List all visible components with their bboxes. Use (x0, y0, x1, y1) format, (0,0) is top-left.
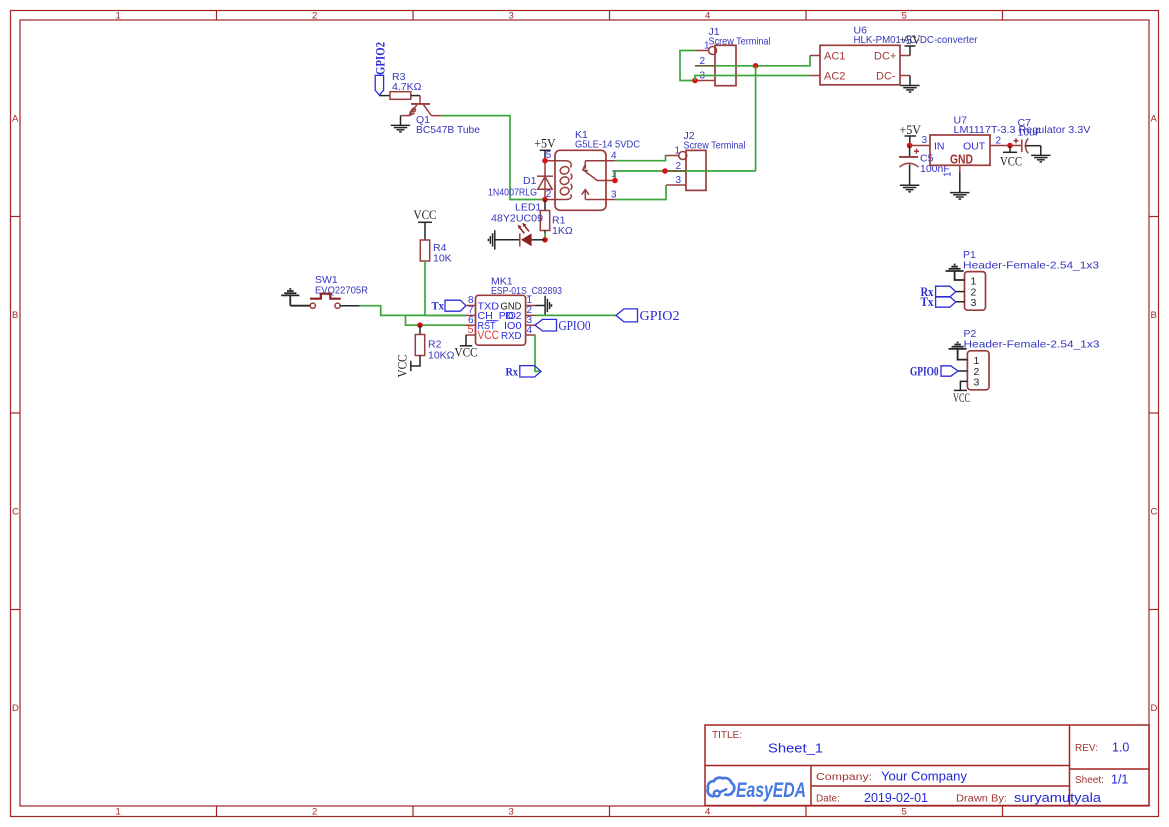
svg-text:B: B (12, 310, 18, 321)
svg-text:4: 4 (705, 11, 710, 22)
svg-text:GND: GND (950, 153, 973, 167)
svg-text:5: 5 (468, 324, 474, 336)
svg-text:B: B (1151, 310, 1157, 321)
wire GPIO2 flag to R3 (379, 95, 390, 97)
junction dot (J1 pin3) (692, 78, 698, 84)
svg-text:Drawn By:: Drawn By: (956, 794, 1007, 805)
svg-text:3: 3 (974, 377, 980, 389)
svg-text:C: C (1151, 507, 1158, 518)
header P2 (958, 328, 1100, 390)
net flag GPIO0 (P2) (910, 364, 958, 379)
svg-text:LM1117T-3.3 Regulator 3.3V: LM1117T-3.3 Regulator 3.3V (954, 124, 1091, 136)
ground (U7) (950, 193, 969, 200)
resistor R2 (415, 335, 454, 362)
svg-text:Date:: Date: (816, 794, 840, 805)
wire SW1 to RST (staircase) (360, 306, 466, 316)
net flag Tx (ESP pin8) (432, 299, 467, 313)
junction dot (coil2/D1/R1) (542, 197, 548, 203)
svg-text:1.0: 1.0 (1112, 741, 1129, 755)
net flag GPIO2 (right) (616, 308, 680, 323)
svg-text:10KΩ: 10KΩ (428, 350, 455, 362)
wire R1 to LED (544, 231, 546, 234)
ground (ESP GND) (545, 296, 551, 315)
wire R3 to Q1 base (411, 95, 420, 97)
svg-text:VCC: VCC (953, 390, 970, 405)
net flag Tx (P1) (921, 294, 956, 309)
svg-text:VCC: VCC (478, 328, 500, 342)
svg-text:TITLE:: TITLE: (712, 730, 742, 741)
svg-text:+5V: +5V (900, 122, 922, 137)
net flag GPIO0 (ESP pin3) (535, 318, 591, 333)
wire ESP IO2 to GPIO2 flag (536, 314, 617, 316)
ground (P1 pin1) (946, 265, 965, 281)
relay K1 (545, 129, 640, 210)
VCC (R2 bottom) (395, 355, 421, 378)
wire ESP GND to ground (536, 305, 546, 307)
AC-DC converter U6 (810, 25, 978, 85)
wire relay pin4 to J2 pin1 (615, 156, 666, 161)
svg-text:VCC: VCC (414, 207, 437, 222)
svg-text:Sheet:: Sheet: (1075, 775, 1104, 786)
svg-text:D: D (12, 703, 19, 714)
svg-text:C: C (12, 507, 19, 518)
svg-text:3: 3 (509, 11, 514, 22)
EasyEDA logo (708, 778, 806, 802)
svg-text:Company:: Company: (816, 772, 872, 783)
svg-text:Tx: Tx (921, 294, 934, 309)
junction dot (relay pin1) (612, 178, 618, 184)
VCC (U7 out) (1000, 146, 1022, 169)
junction dot (+5V/D1/coil) (542, 158, 548, 164)
ground (Q1) (391, 125, 410, 131)
wire dot to R2 (419, 325, 421, 334)
screw terminal J1 (695, 26, 771, 86)
header P1 (956, 249, 1099, 310)
svg-text:5: 5 (902, 807, 907, 818)
wire relay pin1 to J2 pin2 net (615, 171, 756, 181)
svg-text:1: 1 (704, 41, 710, 52)
svg-text:Screw Terminal: Screw Terminal (709, 36, 771, 48)
title block (705, 725, 1149, 806)
capacitor C7 (1010, 138, 1041, 155)
svg-text:DC-: DC- (876, 71, 896, 83)
ground (C7) (1031, 155, 1050, 162)
svg-text:2: 2 (312, 11, 317, 22)
svg-text:48Y2UC09: 48Y2UC09 (491, 213, 543, 225)
svg-text:Sheet_1: Sheet_1 (768, 742, 823, 756)
svg-text:3: 3 (971, 297, 977, 309)
svg-text:3: 3 (509, 807, 514, 818)
junction dot (OUT/VCC/C7) (1007, 143, 1013, 149)
svg-text:GPIO2: GPIO2 (640, 308, 680, 323)
svg-text:RXD: RXD (501, 330, 522, 342)
svg-text:A: A (12, 114, 19, 125)
svg-text:AC1: AC1 (824, 51, 845, 63)
svg-text:10K: 10K (433, 253, 452, 265)
ground (SW1) (281, 289, 310, 306)
wire J1 pin3 to U6 AC2 (695, 76, 810, 81)
ground (C5) (900, 185, 919, 192)
svg-text:1: 1 (116, 11, 121, 22)
wire R4 to CH_PD (425, 261, 466, 315)
svg-text:G5LE-14 5VDC: G5LE-14 5VDC (575, 139, 640, 151)
svg-text:1: 1 (675, 146, 681, 157)
svg-text:D: D (1151, 703, 1158, 714)
resistor R1 (540, 211, 573, 238)
svg-text:1N4007RLG: 1N4007RLG (488, 187, 537, 199)
capacitor C5 (899, 146, 950, 186)
net flag Rx (P1) (921, 284, 956, 299)
wire Q1 emitter to ground (400, 116, 402, 126)
+5V (relay) (534, 136, 556, 161)
resistor R4 (420, 240, 451, 265)
svg-text:1: 1 (974, 355, 980, 367)
svg-text:+5V: +5V (899, 32, 921, 47)
svg-text:BC547B Tube: BC547B Tube (416, 124, 480, 136)
svg-text:VCC: VCC (395, 355, 410, 378)
transistor Q1 (401, 104, 481, 136)
VCC (ESP pin5) (455, 335, 478, 360)
svg-text:IN: IN (934, 140, 945, 152)
ground (U6 DC-) (900, 76, 919, 93)
wire U7 GND to ground (959, 172, 961, 193)
wire ESP RXD down to Rx flag (535, 335, 541, 371)
wire J1 pin1 to pin3 (680, 51, 695, 81)
wire coil junction to R1 (544, 200, 546, 211)
svg-text:REV:: REV: (1075, 743, 1098, 754)
wire overlay J2 pin2 stub (666, 170, 686, 172)
svg-text:4.7KΩ: 4.7KΩ (392, 81, 422, 93)
svg-text:D1: D1 (523, 175, 537, 187)
resistor R3 (390, 71, 422, 99)
junction dot (R1/LED) (542, 237, 548, 243)
svg-text:5: 5 (902, 11, 907, 22)
net flag GPIO2 (top left) (373, 42, 388, 95)
svg-text:DC+: DC+ (874, 51, 896, 63)
svg-text:EasyEDA: EasyEDA (736, 779, 806, 802)
wire to U7 IN (910, 145, 930, 147)
svg-text:VCC: VCC (455, 345, 478, 360)
ground (P2 pin1) (949, 342, 968, 359)
junction dot (J1 pin2 riser) (753, 63, 759, 69)
svg-text:4: 4 (705, 807, 710, 818)
diode D1 (488, 161, 553, 200)
svg-text:OUT: OUT (963, 140, 986, 152)
svg-text:GPIO2: GPIO2 (373, 42, 388, 75)
svg-text:AC2: AC2 (824, 71, 845, 83)
wire J1 pin2 to U6 AC1 (695, 56, 810, 66)
svg-text:Rx: Rx (506, 365, 519, 379)
svg-text:1: 1 (116, 807, 121, 818)
svg-text:1KΩ: 1KΩ (552, 225, 573, 237)
svg-text:3: 3 (676, 175, 682, 186)
svg-text:GPIO0: GPIO0 (910, 364, 939, 379)
svg-text:+5V: +5V (534, 136, 556, 151)
svg-text:4: 4 (527, 325, 533, 336)
svg-text:Header-Female-2.54_1x3: Header-Female-2.54_1x3 (963, 260, 1099, 272)
junction dot (J2 pin2) (662, 168, 668, 174)
svg-text:Your Company: Your Company (881, 770, 968, 784)
svg-text:Header-Female-2.54_1x3: Header-Female-2.54_1x3 (964, 339, 1100, 351)
svg-text:Tx: Tx (432, 299, 445, 313)
VCC (R4 top) (414, 207, 437, 240)
LED1 (491, 202, 545, 247)
svg-text:1/1: 1/1 (1111, 773, 1128, 787)
VCC (P2 pin3) (953, 381, 970, 405)
+5V (U7 input) (900, 122, 922, 146)
svg-text:suryamutyala: suryamutyala (1014, 791, 1101, 805)
svg-text:A: A (1151, 114, 1158, 125)
screw terminal J2 (666, 130, 746, 190)
svg-text:2019-02-01: 2019-02-01 (864, 791, 928, 805)
svg-text:VCC: VCC (1000, 154, 1022, 169)
svg-text:2: 2 (312, 807, 317, 818)
switch SW1 (310, 274, 368, 308)
junction dot (+5V/C5/IN) (907, 143, 913, 149)
+5V (U6 DC+) (899, 32, 921, 56)
regulator U7 (922, 115, 1091, 178)
ESP-01 module MK1 (466, 276, 562, 346)
svg-text:3: 3 (922, 135, 928, 146)
svg-text:1: 1 (943, 171, 954, 177)
wire relay pin3 to J2 pin3 (615, 185, 666, 200)
wire Q1 collector to relay coil (net) (441, 116, 545, 200)
junction dot (RST/R2) (417, 322, 423, 328)
wire overlay J1 pin2 stub (695, 65, 715, 67)
wire J1 pin2 down to J2 pin2 (755, 66, 757, 171)
ground (LED) (488, 230, 494, 249)
svg-text:GPIO0: GPIO0 (559, 318, 591, 333)
svg-text:Screw Terminal: Screw Terminal (684, 140, 746, 152)
net flag Rx (ESP) (506, 365, 542, 379)
